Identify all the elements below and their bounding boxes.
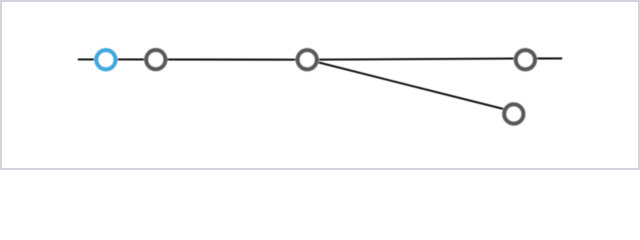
node 3 (branch point) xyxy=(295,48,319,72)
wire: diagonal branch from node 3 to node 5 xyxy=(307,60,514,112)
node 4 xyxy=(514,48,538,72)
node 2 xyxy=(144,48,168,72)
graph canvas xyxy=(2,2,638,168)
node 1 (blue, selected) xyxy=(94,48,118,72)
node 5 (branch end) xyxy=(502,102,526,126)
wire: main horizontal line xyxy=(78,58,562,59)
